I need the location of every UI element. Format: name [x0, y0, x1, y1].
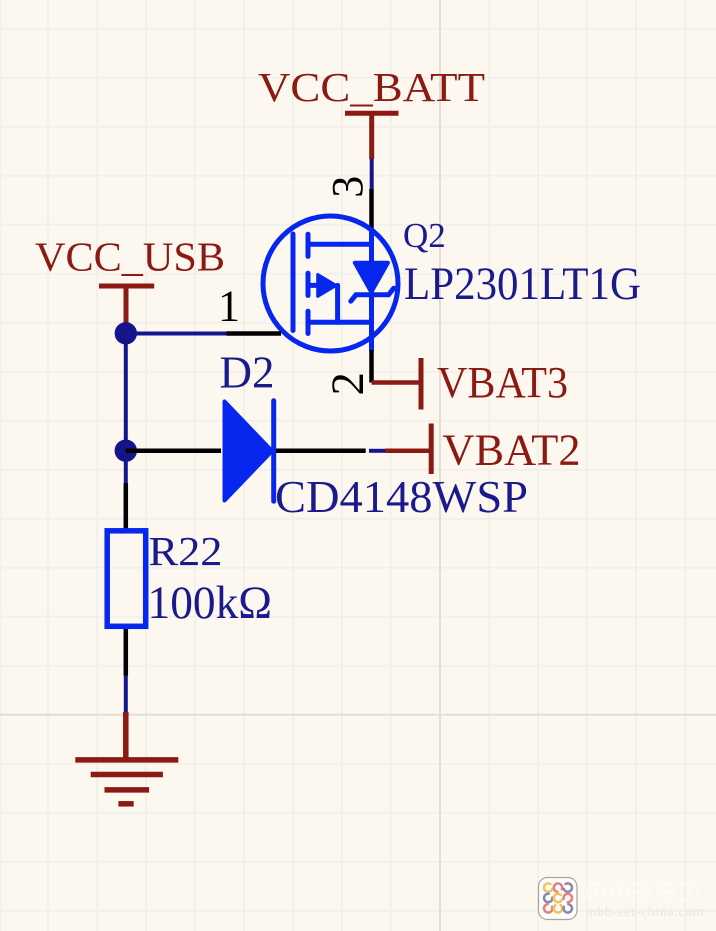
Q2 channel dashes [306, 234, 311, 256]
grid major vertical [439, 0, 441, 931]
svg-text:R22: R22 [149, 528, 223, 574]
svg-text:Q2: Q2 [403, 216, 446, 255]
wire junction B to D2 [126, 449, 221, 454]
Q2 pin 2 [369, 350, 374, 383]
Q2 gate bar [291, 234, 296, 331]
Q2 body diode cathode bar [351, 288, 394, 301]
power flag VCC_BATT [345, 113, 399, 159]
wire VCC_BATT to Q2 pin 3 [370, 159, 374, 189]
Q2 drain bar [308, 242, 372, 247]
svg-text:100kΩ: 100kΩ [148, 577, 273, 629]
ground [75, 712, 178, 804]
watermark logo [539, 878, 578, 920]
junction B [115, 440, 137, 462]
watermark CJK text [588, 884, 699, 900]
net port VBAT3 [372, 358, 422, 410]
Q2 source bar [308, 320, 372, 325]
Q2 pin 1 [227, 331, 282, 336]
svg-text:3: 3 [323, 176, 372, 198]
svg-text:VCC_USB: VCC_USB [35, 234, 225, 280]
svg-text:1: 1 [218, 282, 240, 331]
resistor R22 [107, 531, 146, 627]
Q2 body diode triangle [355, 263, 388, 292]
Q2 body tap [308, 283, 320, 288]
svg-text:VBAT2: VBAT2 [443, 426, 581, 475]
wire junction B down [124, 451, 128, 483]
R22 pin 1 [124, 483, 129, 529]
svg-text:VCC_BATT: VCC_BATT [258, 64, 485, 110]
net port VBAT2 [385, 424, 431, 475]
Q2 circle [263, 216, 398, 351]
Q2 main vertical (drain-source) [369, 233, 374, 350]
grid major horizontal [0, 714, 716, 716]
diode D2 [225, 402, 273, 501]
svg-text:LP2301LT1G: LP2301LT1G [404, 258, 641, 310]
wire junction A to junction B [124, 333, 128, 450]
Q2 arrow [318, 275, 336, 297]
Q2 pin 3 [369, 189, 374, 233]
svg-text:VBAT3: VBAT3 [437, 358, 568, 407]
svg-text:CD4148WSP: CD4148WSP [275, 471, 528, 522]
junction A [115, 322, 137, 344]
svg-text:D2: D2 [220, 348, 275, 398]
wire stub to VBAT2 [369, 449, 385, 453]
R22 pin 2 [124, 629, 129, 676]
D2 cathode bar [271, 401, 276, 501]
svg-text:2: 2 [322, 372, 374, 396]
svg-text:mbb-eet-china.com: mbb-eet-china.com [586, 904, 704, 919]
D2 pin 2 wire [276, 449, 366, 454]
transistor Q2 symbol [293, 233, 394, 350]
wire junction A to Q2 gate [126, 332, 227, 336]
power flag VCC_USB [99, 286, 154, 325]
wire R22 to ground [124, 676, 128, 713]
